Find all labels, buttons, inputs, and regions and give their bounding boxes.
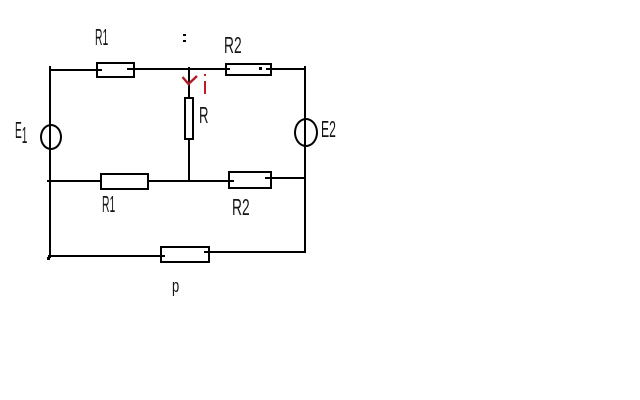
colon mark <box>183 34 186 37</box>
label R2 (middle) <box>232 196 250 219</box>
resistor R (vertical) <box>184 97 195 140</box>
resistor R2 (top) <box>225 63 272 76</box>
wire: right vertical branch <box>304 66 306 253</box>
label E2 <box>321 118 336 141</box>
source E1 (left ellipse) <box>40 124 62 150</box>
label R <box>199 104 208 127</box>
wire: top segment from R1 to R2 <box>127 68 230 70</box>
wire: left vertical branch <box>49 66 51 258</box>
label E1 <box>15 119 27 142</box>
wire: middle vertical stub above top wire <box>188 67 190 98</box>
label R1 (middle) <box>102 193 115 216</box>
wire: bottom horizontal from left corner to p box <box>48 255 165 257</box>
resistor R2 (middle) <box>228 171 272 189</box>
wire: middle horizontal from left branch to R1 (middle) <box>47 180 102 182</box>
wire: top segment from left corner to R1 <box>49 69 102 71</box>
wire: middle horizontal from R1 to R2 (middle) <box>149 180 234 182</box>
current arrow i (red check) <box>180 73 200 87</box>
resistor R1 (middle) <box>100 173 149 190</box>
wire: middle horizontal from R2 to right branch <box>265 177 306 179</box>
resistor p (bottom box) <box>160 246 210 263</box>
label i (red) <box>204 74 207 77</box>
wire: from R down to middle wire <box>188 138 190 182</box>
wire: top segment from R2 to right corner <box>266 68 306 70</box>
dot inside R2 (top) <box>259 67 262 70</box>
source E2 (right ellipse) <box>294 118 318 147</box>
resistor R1 (top) <box>96 62 135 78</box>
wire: bottom horizontal from p box to right corner <box>204 251 307 253</box>
label R1 (top) <box>95 26 108 49</box>
label R2 (top) <box>224 34 242 57</box>
label p <box>172 277 179 296</box>
wire: bottom-left corner foot <box>47 257 50 260</box>
